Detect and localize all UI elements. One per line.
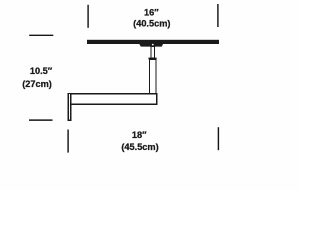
mounting plate under shelf	[139, 44, 163, 47]
shelf top bar	[87, 40, 219, 44]
svg-text:10.5″: 10.5″	[30, 66, 53, 76]
collar	[148, 58, 156, 60]
lower post	[150, 59, 157, 94]
arm	[68, 94, 156, 105]
dim tick top-left	[87, 5, 89, 28]
svg-text:(27cm): (27cm)	[22, 79, 52, 89]
dim tick left-upper	[29, 34, 53, 36]
dim tick top-right	[217, 4, 219, 27]
svg-text:16″: 16″	[144, 7, 159, 17]
white notch in plate	[152, 44, 154, 46]
wall bracket	[68, 94, 71, 121]
dim tick bottom-right	[217, 127, 219, 150]
svg-text:(40.5cm): (40.5cm)	[133, 19, 170, 29]
upper post	[151, 46, 155, 58]
dim tick bottom-left	[67, 130, 69, 153]
dim tick left-lower	[29, 119, 53, 121]
svg-text:18″: 18″	[132, 130, 147, 140]
svg-text:(45.5cm): (45.5cm)	[121, 142, 158, 152]
